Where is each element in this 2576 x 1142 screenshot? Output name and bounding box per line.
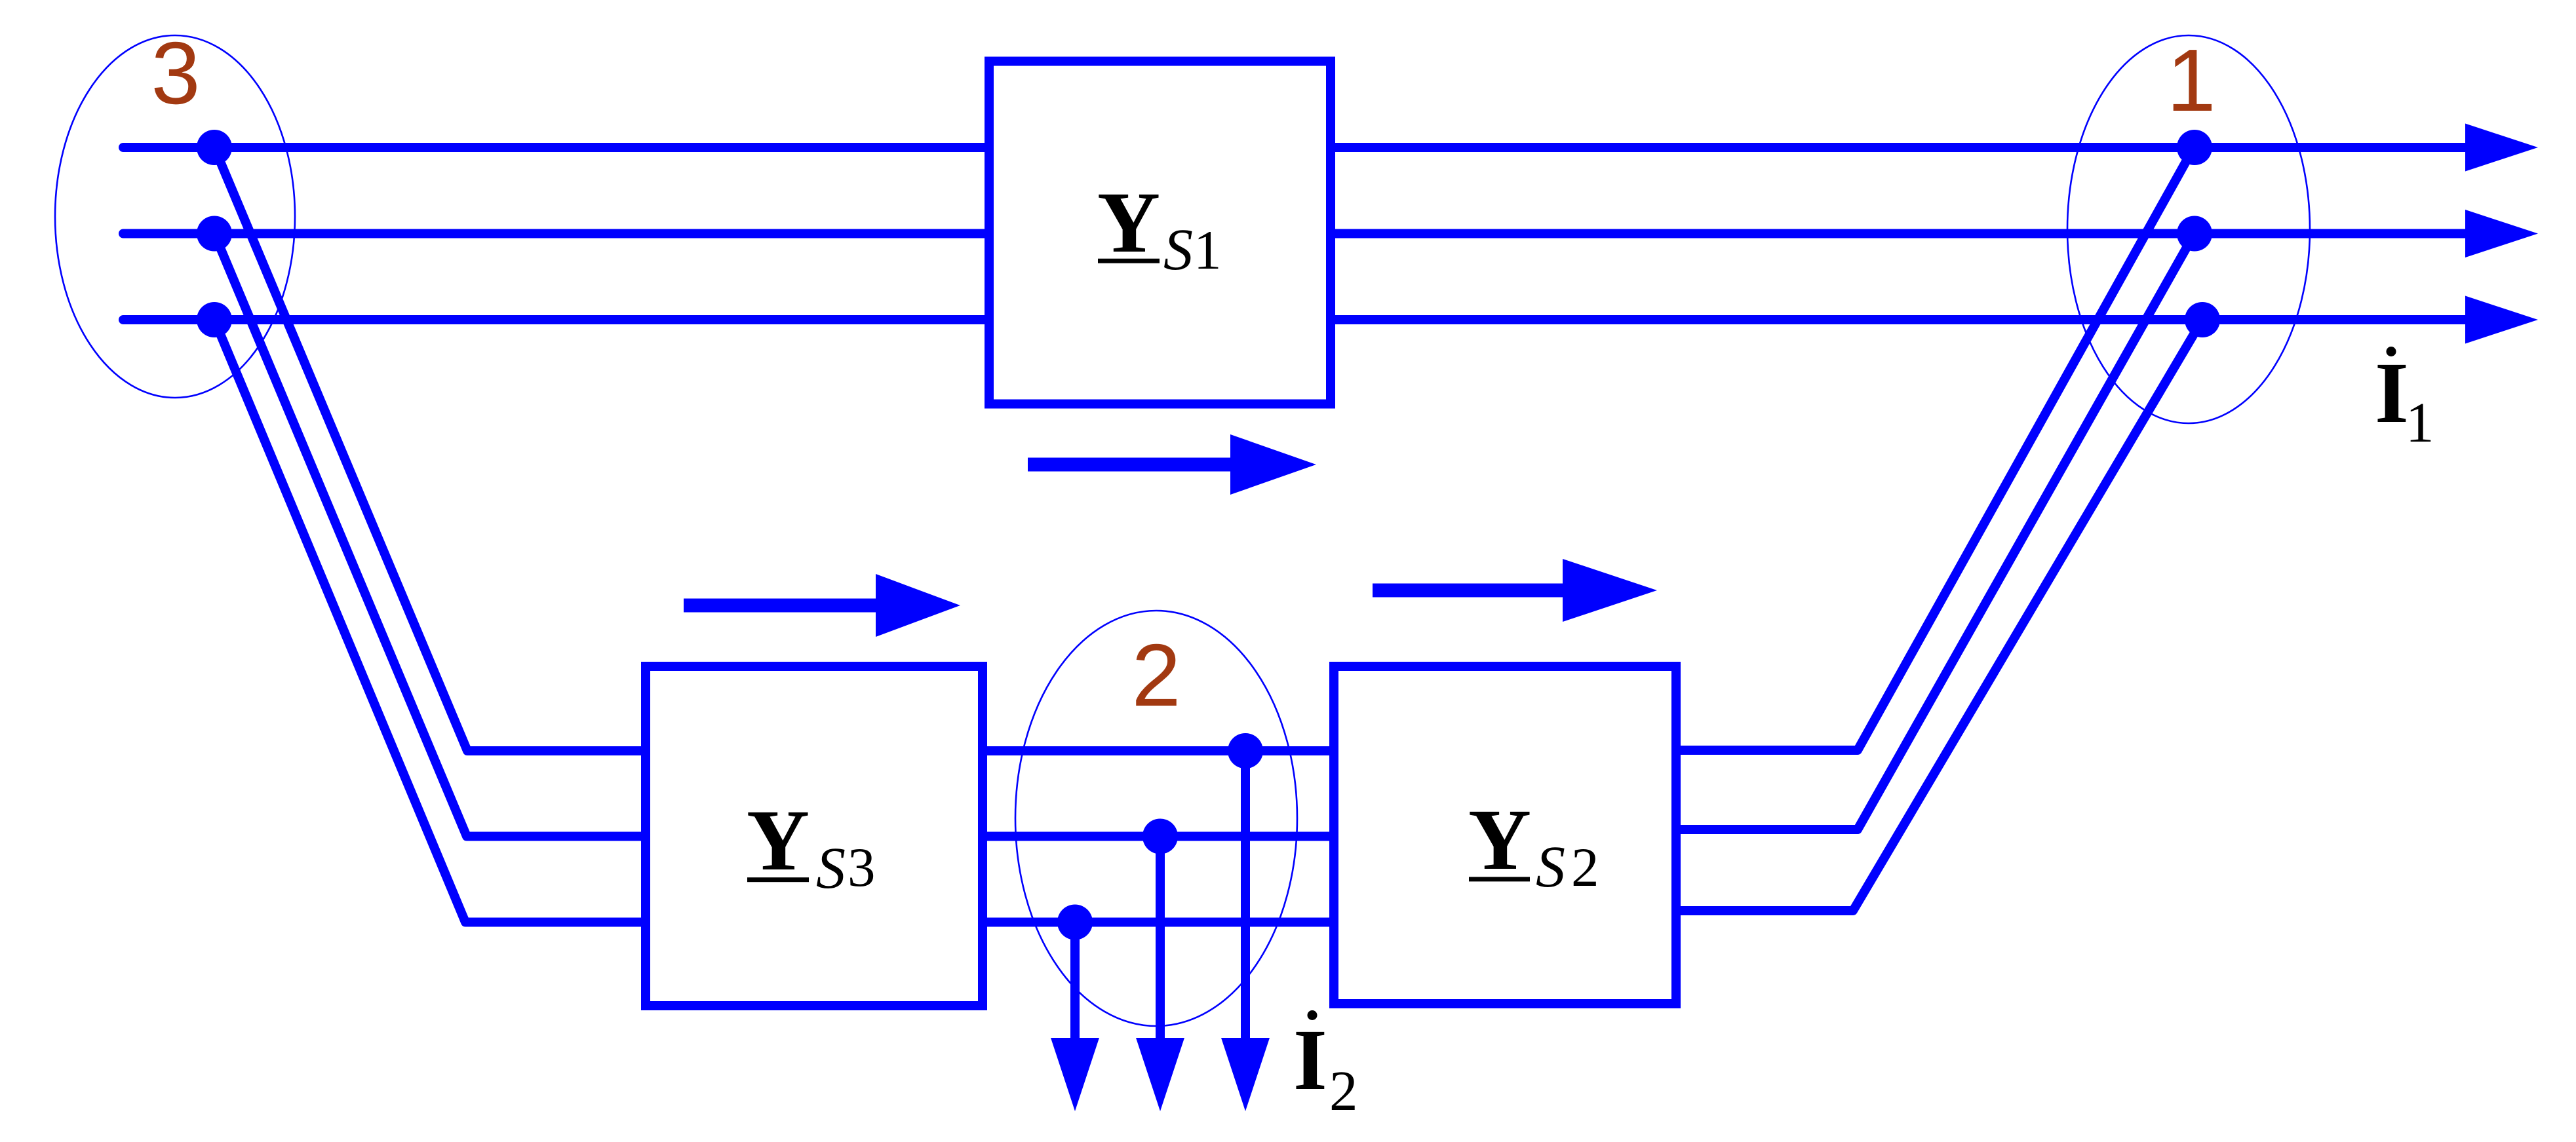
wire YS2 to node1 phase-b xyxy=(1671,234,2195,830)
junction dot node2 phase-a xyxy=(1228,733,1263,769)
svg-text:3: 3 xyxy=(151,24,200,123)
svg-text:1: 1 xyxy=(2406,390,2434,454)
svg-text:I: I xyxy=(2375,344,2409,441)
direction arrow above YS3 xyxy=(684,574,960,637)
admittance block U=YS3 xyxy=(646,666,983,1006)
svg-text:2: 2 xyxy=(1571,837,1599,898)
direction arrow below YS1 xyxy=(1028,434,1316,495)
junction dot node1 phase-b xyxy=(2177,216,2212,252)
svg-text:S: S xyxy=(1536,835,1565,900)
svg-text:1: 1 xyxy=(2166,31,2215,130)
arrowhead I1 phase-c xyxy=(2465,296,2538,344)
label I2 current xyxy=(1293,1010,1358,1122)
junction dot node3 phase-b xyxy=(197,216,232,252)
admittance block U=YS2 xyxy=(1334,666,1676,1004)
wire phase-b top horizontal xyxy=(123,229,2469,238)
node 3 ellipse xyxy=(55,35,295,398)
direction arrow between node2 and YS2 xyxy=(1373,559,1657,622)
wire I2 arrow shaft phase-c xyxy=(1070,923,1080,1044)
arrowhead I1 phase-a xyxy=(2465,124,2538,172)
svg-text:I: I xyxy=(1293,1011,1327,1108)
label YS3 xyxy=(747,791,876,901)
svg-text:2: 2 xyxy=(1131,626,1181,725)
junction dot node1 phase-a xyxy=(2177,130,2212,165)
arrowhead I2 phase-b xyxy=(1136,1038,1184,1111)
junction dot node2 phase-b xyxy=(1142,819,1178,854)
wire I2 arrow shaft phase-a xyxy=(1241,751,1250,1043)
label YS2 xyxy=(1468,791,1599,900)
junction dot node1 phase-c xyxy=(2185,302,2220,337)
junction dot node2 phase-c xyxy=(1057,905,1093,940)
wire phase-a top horizontal xyxy=(123,143,2469,152)
wire phase-c top horizontal xyxy=(123,315,2469,324)
arrowhead I2 phase-c xyxy=(1051,1038,1099,1111)
wire YS2 to node1 phase-c xyxy=(1671,320,2202,911)
wire diagonal node3 to YS3 phase-c xyxy=(214,320,655,923)
wire YS2 to node1 phase-a xyxy=(1671,147,2194,750)
svg-text:S: S xyxy=(1163,218,1193,282)
svg-text:Y: Y xyxy=(1097,174,1160,271)
node 1 ellipse xyxy=(2067,35,2310,423)
wire node2 bus phase-b xyxy=(980,832,1340,841)
wire diagonal node3 to YS3 phase-a xyxy=(214,147,655,751)
label I1 current xyxy=(2375,344,2434,454)
wire node2 bus phase-c xyxy=(980,918,1340,927)
wire diagonal node3 to YS3 phase-b xyxy=(214,234,655,837)
svg-text:Y: Y xyxy=(747,791,810,888)
node 2 ellipse xyxy=(1015,611,1297,1026)
junction dot node3 phase-c xyxy=(197,302,232,337)
wire node2 bus phase-a xyxy=(980,746,1340,755)
svg-text:2: 2 xyxy=(1329,1059,1358,1122)
label YS1 xyxy=(1097,174,1222,282)
arrowhead I1 phase-b xyxy=(2465,210,2538,257)
svg-text:S: S xyxy=(816,836,846,901)
svg-text:1: 1 xyxy=(1194,219,1222,281)
arrowhead I2 phase-a xyxy=(1221,1038,1270,1111)
svg-text:Y: Y xyxy=(1468,791,1531,888)
wire I2 arrow shaft phase-b xyxy=(1156,837,1165,1044)
svg-text:3: 3 xyxy=(848,837,876,898)
admittance block U=YS1 xyxy=(989,62,1331,404)
junction dot node3 phase-a xyxy=(197,130,232,165)
